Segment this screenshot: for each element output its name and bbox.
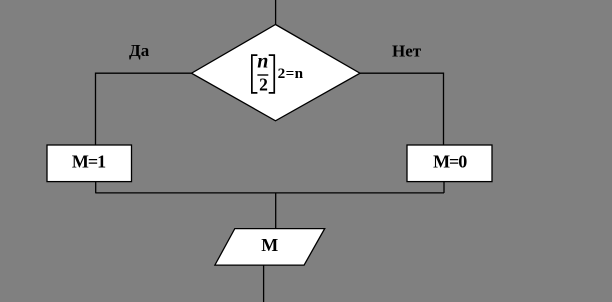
svg-text:М=0: М=0	[433, 152, 467, 172]
svg-text:М=1: М=1	[72, 152, 106, 172]
svg-text:2: 2	[259, 75, 268, 95]
svg-text:М: М	[261, 235, 278, 255]
svg-text:Нет: Нет	[392, 42, 422, 61]
svg-text:n: n	[257, 51, 268, 73]
svg-text:2=n: 2=n	[278, 65, 304, 82]
svg-text:Да: Да	[129, 41, 150, 60]
